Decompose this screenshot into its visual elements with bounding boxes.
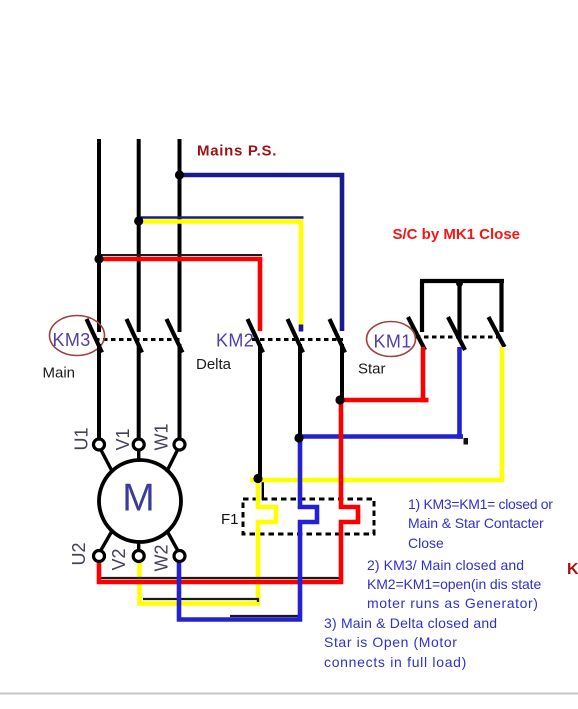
- note annotation block 3: [324, 614, 497, 672]
- contactor KM2 pole3 blade: [330, 319, 346, 353]
- note annotation block 1: [408, 495, 553, 553]
- wire KM2 pole2 lower black: [298, 344, 302, 435]
- contactor KM2 dashed link: [252, 338, 343, 341]
- terminal U1: [94, 439, 105, 450]
- contactor KM1 pole3 blade: [489, 317, 505, 347]
- wire blue underlay of yellow tap: [139, 216, 304, 218]
- wire yellow tap L2 to KM2 pole2: [139, 222, 301, 327]
- contactor KM3 pole3 blade: [167, 319, 183, 353]
- contactor KM1 pole2 blade: [448, 317, 465, 350]
- svg-text:W2: W2: [152, 545, 172, 572]
- contactor KM3 dashed link: [95, 338, 182, 341]
- wire blue tap L3 to KM2 pole3: [180, 175, 343, 331]
- svg-text:U2: U2: [69, 542, 89, 565]
- wire black underlay of red tap: [98, 254, 262, 256]
- wire yellow F1 element and to V2: [140, 478, 277, 604]
- svg-text:Main: Main: [43, 365, 76, 382]
- contactor KM1 pole1 blade: [408, 317, 425, 350]
- wire W2 to motor: [167, 530, 178, 550]
- svg-text:V2: V2: [109, 548, 129, 570]
- wire black remnant above blue bottom run: [230, 615, 301, 617]
- wire blue overshoot at KM1 pole2 corner: [457, 434, 463, 439]
- wire U1 to motor: [101, 450, 113, 472]
- terminal U2: [94, 551, 105, 562]
- svg-text:KM1: KM1: [374, 332, 412, 352]
- node dot KM2 pole3 to red: [335, 395, 344, 404]
- wire black corner remnant right of blue run: [464, 438, 469, 445]
- svg-text:KM2: KM2: [216, 331, 254, 351]
- wire yellow from KM1 pole3 to F1: [250, 347, 502, 480]
- svg-text:V1: V1: [113, 428, 133, 450]
- wire KM2 pole1 lower black: [258, 344, 262, 476]
- KM3 ellipse: [50, 316, 105, 356]
- wire blue remnant tip under yellow tap: [299, 325, 304, 332]
- svg-text:S/C by MK1 Close: S/C by MK1 Close: [393, 226, 521, 243]
- wire L3 lower KM3 to W1: [178, 344, 182, 438]
- wire black remnant above red bottom run: [100, 578, 342, 582]
- wire red overshoot at KM1 pole1 corner: [420, 398, 429, 403]
- svg-text:W1: W1: [152, 424, 172, 451]
- node dot on KM1 bridge middle: [456, 280, 463, 287]
- contactor KM1 bridge middle leg: [457, 281, 461, 339]
- phase line L1: [97, 139, 101, 332]
- wire KM2 pole3 lower black: [340, 344, 344, 398]
- contactor KM3 pole1 blade: [87, 319, 103, 353]
- wire W1 to motor: [167, 450, 178, 472]
- wire red from KM1 pole1 through F1 to U2: [99, 347, 423, 582]
- svg-text:Mains P.S.: Mains P.S.: [197, 143, 277, 160]
- contactor KM3 pole2 blade: [127, 319, 143, 353]
- bottom gray rule: [0, 693, 578, 695]
- svg-text:F1: F1: [221, 511, 239, 528]
- wire U2 to motor: [101, 530, 113, 550]
- wire blue from KM1 pole2 to F1: [299, 347, 460, 437]
- wire black remnant beside F1 yellow entry: [262, 480, 264, 500]
- wire L2 lower KM3 to V1: [137, 344, 141, 438]
- terminal W2: [174, 551, 185, 562]
- thermal overload F1 dashed box: [243, 499, 374, 534]
- svg-text:Star: Star: [358, 361, 386, 378]
- wire V1 to motor: [137, 450, 140, 461]
- node junction dot on L3: [175, 170, 184, 179]
- svg-text:M: M: [122, 477, 155, 520]
- wire blue F1 element and to W2: [179, 506, 317, 620]
- wire red tap L1 to KM2 pole1: [99, 259, 260, 331]
- node dot KM2 pole1 to yellow: [253, 474, 262, 483]
- node junction dot on L2: [134, 216, 143, 225]
- wire L1 lower KM3 to U1: [97, 344, 101, 438]
- contactor KM1 bridge left leg: [420, 281, 424, 332]
- contactor KM2 pole1 blade: [248, 319, 264, 353]
- svg-text:KM3: KM3: [53, 330, 91, 350]
- KM1 ellipse: [367, 322, 416, 357]
- contactor KM2 pole2 blade: [288, 319, 304, 353]
- svg-text:Delta: Delta: [196, 356, 232, 373]
- contactor KM1 bridge right leg: [499, 281, 503, 332]
- contactor KM1 bridge top bar: [420, 279, 504, 283]
- motor circle M: [99, 460, 181, 542]
- wire blue F1 entry: [298, 434, 303, 508]
- wire V2 to motor: [137, 541, 140, 550]
- node junction dot on L1: [94, 254, 103, 263]
- wire black remnant above yellow bottom run: [143, 599, 258, 602]
- phase line L2: [137, 139, 141, 332]
- terminal V1: [133, 439, 144, 450]
- contactor KM1 dashed link: [416, 336, 502, 339]
- terminal W1: [174, 439, 185, 450]
- svg-text:U1: U1: [72, 427, 92, 450]
- terminal V2: [133, 551, 144, 562]
- node dot KM2 pole2 to blue: [294, 433, 303, 442]
- svg-text:K: K: [567, 561, 578, 578]
- note annotation block 2: [367, 556, 541, 614]
- phase line L3: [178, 139, 182, 332]
